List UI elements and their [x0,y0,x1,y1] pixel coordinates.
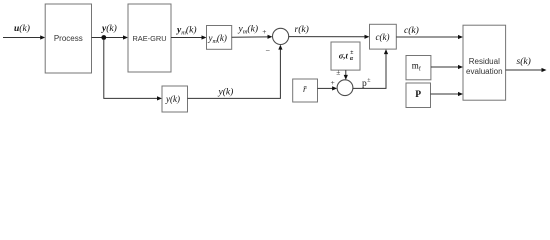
wire: u(k) input arrow [3,35,45,39]
block m_f [406,56,431,80]
svg-text:RAE-GRU: RAE-GRU [132,34,166,43]
wire: summer2 right then up into c(k) bottom, p± [353,49,388,88]
svg-text:σ,t: σ,t [339,51,349,61]
svg-text:y(k): y(k) [101,23,117,34]
svg-text:+: + [262,27,266,36]
summing junction S1 [273,28,289,44]
svg-text:c(k): c(k) [404,25,419,36]
svg-text:u(k): u(k) [14,23,30,34]
svg-text:±: ± [336,67,340,76]
wire: branch from y(k) node down and right to y(k) block [104,40,162,101]
svg-text:c(k): c(k) [376,32,390,42]
RAE-GRU model U1 [128,4,171,72]
wire: RAE-GRU to ym selector [171,35,207,39]
block ym(k) selector [207,26,232,50]
block c(k) [370,24,397,49]
wire: P to residual evaluation [431,92,464,96]
wire: ym selector to summing junction [232,35,273,39]
svg-text:Residual: Residual [469,57,500,66]
wire: sigma block down into summer2 [344,70,348,80]
wire: y(k) block right, along bottom and up into summer1 [188,45,283,99]
svg-text:r(k): r(k) [295,24,309,35]
svg-text:ym(k): ym(k) [238,24,258,36]
block P [406,83,431,108]
svg-text:y(k): y(k) [165,94,180,104]
svg-text:ym(k): ym(k) [176,25,196,37]
wire: s(k) output arrow [506,68,547,72]
svg-text:+: + [331,78,335,87]
residual evaluation block [463,25,506,100]
wire: Process to RAE-GRU [92,35,129,39]
block r-bar [293,79,318,102]
wire: c(k) to residual evaluation [396,35,463,39]
svg-text:±: ± [350,50,353,56]
summing junction S2 [337,80,353,96]
wire: m_f to residual evaluation [431,65,463,69]
process P1 [45,4,91,73]
svg-text:y(k): y(k) [218,87,234,98]
node y(k) junction dot [101,35,106,40]
svg-text:Process: Process [54,34,83,43]
wire: r-bar to summer2 [318,86,338,90]
svg-text:−: − [266,47,271,56]
svg-text:P: P [415,90,421,100]
svg-text:p: p [362,79,367,89]
block sigma_r t_alpha [331,42,360,70]
svg-text:s(k): s(k) [517,56,531,67]
svg-text:evaluation: evaluation [466,67,502,76]
wire: summer1 to c(k) block, r(k) [289,35,370,39]
block y(k) selector [162,86,188,112]
